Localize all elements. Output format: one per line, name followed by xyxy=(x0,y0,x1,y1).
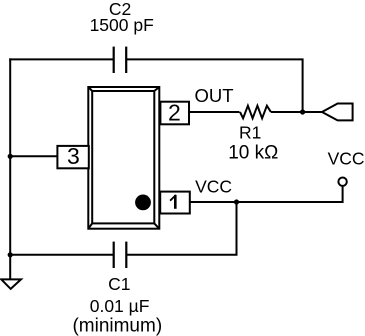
pin 1 xyxy=(160,192,190,214)
node VCC junction xyxy=(234,199,239,204)
svg-text:R1: R1 xyxy=(239,122,261,142)
svg-text:10 kΩ: 10 kΩ xyxy=(228,143,278,164)
svg-text:2: 2 xyxy=(168,100,181,126)
node junction pin3 / left rail xyxy=(8,154,13,159)
ground xyxy=(1,279,21,289)
wire VCC node down to bottom rail xyxy=(126,202,236,255)
wire top from left rail to C2 xyxy=(9,58,114,60)
svg-text:OUT: OUT xyxy=(194,85,233,106)
wire pin 3 to left rail xyxy=(10,155,57,157)
wire C1 to left rail xyxy=(10,254,114,256)
wire VCC terminal to pin 1 xyxy=(190,186,343,202)
wire R1 to OUT node xyxy=(271,111,322,113)
wire pin 2 to R1 xyxy=(189,111,240,113)
node bottom-left junction xyxy=(8,252,13,257)
wire top from C2 to corner and down to OUT node xyxy=(126,59,302,112)
capacitor C1 xyxy=(114,242,127,268)
VCC terminal circle xyxy=(338,178,346,186)
node OUT junction xyxy=(300,109,305,114)
svg-text:(minimum): (minimum) xyxy=(72,316,162,336)
wire left rail (top corner to ground) xyxy=(9,58,11,279)
IC U1 package outline xyxy=(88,87,159,229)
svg-text:C1: C1 xyxy=(108,274,130,294)
IC pin-1 indicator dot xyxy=(135,195,151,211)
pin 3 xyxy=(57,143,88,169)
pin 2 xyxy=(160,100,189,126)
svg-text:1500 pF: 1500 pF xyxy=(90,15,154,35)
svg-text:0.01 µF: 0.01 µF xyxy=(90,296,150,316)
resistor R1 xyxy=(240,106,271,119)
capacitor C2 xyxy=(114,47,127,73)
output probe connector xyxy=(322,104,353,121)
svg-text:VCC: VCC xyxy=(195,176,232,196)
svg-text:VCC: VCC xyxy=(328,149,365,169)
svg-text:3: 3 xyxy=(67,143,80,169)
